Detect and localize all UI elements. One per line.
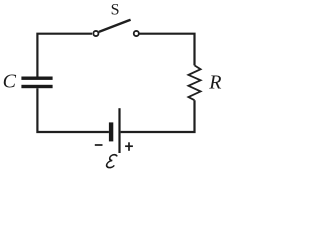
label minus (battery negative terminal) bbox=[95, 144, 103, 146]
capacitor C (two horizontal plates) bbox=[21, 77, 52, 89]
label EMF script-E bbox=[106, 155, 117, 168]
label plus (battery positive terminal) bbox=[125, 142, 133, 151]
svg-text:R: R bbox=[208, 72, 221, 94]
svg-text:C: C bbox=[3, 71, 17, 93]
wire bottom-right (from battery positive plate to bottom-right corner) bbox=[121, 100, 195, 132]
wire left lower (from capacitor bottom plate to bottom-left corner) bbox=[37, 88, 109, 132]
wire top-left (from top-left corner to switch left contact) bbox=[37, 34, 92, 77]
wire top-right (from switch right contact to top-right corner) bbox=[139, 34, 195, 66]
resistor R (zigzag) bbox=[188, 65, 200, 100]
switch S (open knife switch with two contact circles and blade) bbox=[93, 20, 139, 36]
svg-text:S: S bbox=[111, 2, 120, 19]
battery (EMF source): short thick negative plate, long thin positive plate bbox=[109, 108, 121, 153]
